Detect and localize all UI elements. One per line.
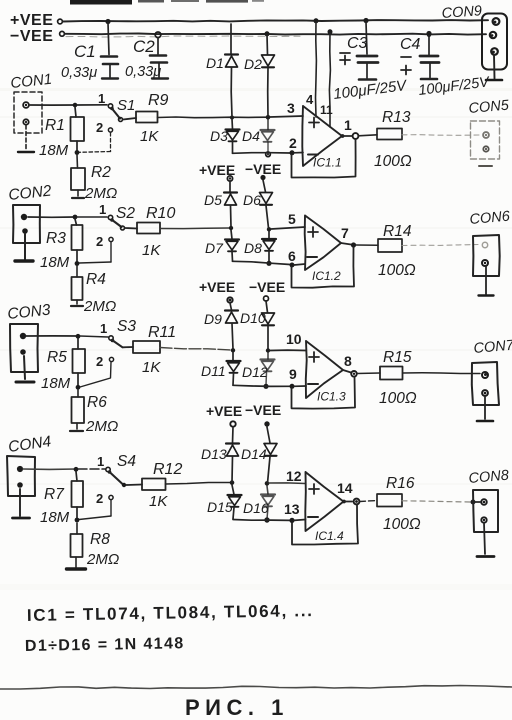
svg-text:2MΩ: 2MΩ	[83, 298, 116, 315]
svg-text:R12: R12	[153, 461, 182, 478]
node R7 top junction	[74, 467, 79, 472]
connector CON8	[473, 490, 498, 532]
svg-text:РИС. 1: РИС. 1	[185, 695, 289, 720]
svg-text:100Ω: 100Ω	[383, 516, 421, 533]
connector CON3	[10, 324, 38, 372]
wire junction to pin 6	[294, 264, 305, 265]
svg-text:D10: D10	[240, 310, 266, 326]
wire R12 to op-amp input	[166, 483, 231, 485]
svg-text:−VEE: −VEE	[245, 161, 281, 177]
wire output pin 1	[341, 133, 359, 139]
svg-text:1K: 1K	[142, 242, 161, 259]
C4 polarity mark	[401, 57, 411, 75]
svg-text:1K: 1K	[149, 493, 168, 510]
resistor R12	[142, 479, 166, 491]
IC1.3 plus input mark	[309, 352, 319, 362]
svg-text:18M: 18M	[40, 254, 70, 271]
-VEE rail	[60, 31, 486, 37]
svg-text:R4: R4	[86, 271, 106, 288]
wire S4 to R12	[126, 484, 142, 487]
svg-text:D7: D7	[205, 240, 224, 256]
svg-text:1: 1	[100, 321, 107, 336]
resistor R9	[136, 112, 158, 123]
feedback wire IC1.3	[292, 377, 356, 409]
op-amp IC1.3	[306, 341, 343, 398]
svg-text:C1: C1	[74, 42, 96, 61]
wire node to pin 12	[269, 482, 306, 485]
svg-text:R13: R13	[382, 109, 411, 126]
wire output pin 14	[342, 499, 359, 505]
diode D9	[225, 303, 238, 349]
CON2 ground	[15, 234, 33, 261]
op-amp IC1.1	[302, 106, 342, 166]
wire CON4 to node	[23, 468, 76, 470]
wire S2 to R10	[125, 227, 137, 230]
node R5 top junction	[76, 334, 81, 339]
diode D8	[262, 231, 276, 266]
capacitor C1	[101, 19, 118, 79]
diode D12	[261, 352, 275, 389]
svg-text:D9: D9	[204, 311, 222, 327]
wire clamp line to pin 2	[233, 152, 291, 155]
feedback wire IC1.1	[292, 139, 356, 178]
svg-text:R7: R7	[44, 486, 65, 503]
node R3-R4 junction	[75, 261, 80, 266]
svg-text:14: 14	[337, 480, 353, 496]
wire S2 pos2 to R4 node	[79, 242, 111, 263]
svg-text:S3: S3	[117, 318, 136, 335]
wire S1 pos2 to R2 node	[79, 133, 111, 153]
svg-text:D3: D3	[210, 128, 228, 144]
diode D1	[225, 24, 238, 117]
wire CON2 to node	[28, 216, 75, 218]
CON6 ground	[479, 266, 494, 296]
node D6 column junction	[267, 227, 271, 231]
diode D3	[226, 119, 240, 153]
svg-text:D16: D16	[243, 500, 269, 516]
node D13 column junction	[230, 480, 235, 485]
node pin6 junction	[290, 263, 295, 268]
svg-text:IC1.4: IC1.4	[315, 529, 344, 543]
diode D2	[262, 31, 275, 116]
svg-text:5: 5	[288, 211, 296, 227]
svg-text:1: 1	[98, 91, 105, 106]
wire node to S3	[80, 336, 108, 337]
svg-text:D12: D12	[242, 364, 268, 380]
resistor R1	[71, 107, 85, 151]
node R3 top junction	[73, 215, 78, 220]
resistor R14	[378, 239, 402, 252]
IC1.1 pin 4 power	[306, 18, 319, 117]
wire output pin 7	[341, 242, 356, 247]
wire R13 to CON5	[402, 134, 479, 137]
svg-text:S4: S4	[117, 453, 136, 470]
wire output to R15	[357, 372, 380, 375]
scan artifact top edge	[70, 0, 264, 5]
resistor R15	[380, 367, 403, 380]
connector CON2	[13, 205, 40, 243]
S3 position 2 terminal	[96, 354, 114, 369]
+VEE terminal ch3	[199, 279, 235, 303]
svg-text:D15: D15	[207, 499, 233, 515]
svg-text:S1: S1	[117, 97, 135, 114]
feedback wire IC1.2	[292, 247, 355, 288]
CON7 ground	[477, 396, 493, 421]
resistor R6	[70, 390, 84, 431]
CON8 ground	[477, 523, 494, 557]
IC1.1 pin 11 power	[320, 29, 333, 127]
switch S2 arm	[110, 218, 124, 230]
svg-text:+VEE: +VEE	[206, 403, 242, 419]
wire clamp line to pin 6	[233, 261, 291, 264]
-VEE terminal ch2	[245, 161, 281, 180]
wire S4 pos2 to R8 node	[79, 500, 111, 520]
CON4 ground	[13, 489, 30, 518]
node pin2 junction	[290, 150, 295, 155]
capacitor C4	[420, 31, 439, 79]
S2 position 1 terminal	[99, 202, 113, 220]
node D9 column junction	[231, 348, 235, 352]
svg-text:12: 12	[286, 468, 302, 484]
svg-text:+VEE: +VEE	[199, 279, 235, 295]
wire clamp line to pin 9	[233, 385, 290, 386]
connector CON6	[473, 235, 500, 276]
svg-text:2: 2	[96, 354, 103, 369]
svg-text:IC1.3: IC1.3	[317, 390, 346, 404]
diode D4	[261, 119, 275, 157]
node R1-R2 junction	[75, 150, 80, 155]
connector CON5	[471, 121, 500, 159]
svg-text:C4: C4	[400, 36, 421, 53]
node R7-R8 junction	[75, 518, 80, 523]
svg-text:R8: R8	[90, 531, 110, 548]
diode D16	[261, 486, 275, 523]
resistor R7	[72, 472, 84, 520]
svg-text:IC1.2: IC1.2	[312, 269, 341, 283]
+VEE terminal ch2	[199, 162, 235, 181]
svg-text:−VEE: −VEE	[10, 28, 53, 45]
CON5 ground mark	[479, 165, 492, 167]
svg-text:18M: 18M	[40, 509, 70, 526]
S2 position 2 terminal	[96, 234, 113, 249]
svg-text:4: 4	[306, 92, 314, 107]
op-amp IC1.2	[305, 216, 341, 271]
svg-text:D5: D5	[204, 192, 222, 208]
svg-text:D1÷D16 = 1N 4148: D1÷D16 = 1N 4148	[25, 635, 185, 655]
node D10 column junction	[266, 348, 270, 352]
svg-text:D1: D1	[206, 55, 224, 71]
svg-text:100Ω: 100Ω	[378, 262, 416, 279]
node R5-R6 junction	[76, 385, 81, 390]
wire CON1 to node	[29, 104, 75, 106]
resistor R2	[71, 155, 85, 198]
R8 ground	[67, 567, 86, 570]
resistor R13	[377, 129, 402, 140]
svg-text:CON7: CON7	[473, 337, 512, 357]
resistor R5	[73, 339, 86, 387]
connector CON7	[472, 362, 499, 405]
-VEE terminal ch3	[249, 279, 285, 301]
node D5 column junction	[229, 226, 233, 230]
connector CON4	[7, 456, 35, 496]
svg-text:+VEE: +VEE	[10, 12, 53, 29]
node pin13 junction	[289, 518, 294, 523]
capacitor C3	[357, 18, 378, 80]
wire output to R13	[359, 135, 378, 136]
op-amp IC1.4	[305, 472, 343, 531]
IC1.2 minus input mark	[307, 256, 317, 258]
node D1 column signal junction	[230, 116, 234, 120]
IC1.3 minus input mark	[308, 383, 318, 385]
S4 position 2 terminal	[96, 491, 113, 506]
wire node to pin 10	[270, 349, 306, 351]
wire S1 to R9	[123, 118, 136, 120]
svg-text:D6: D6	[243, 192, 261, 208]
wire R9 to op-amp input	[158, 116, 268, 119]
diode D6	[260, 180, 273, 228]
svg-text:18M: 18M	[39, 142, 69, 159]
svg-text:100Ω: 100Ω	[379, 390, 417, 407]
IC1.1 plus input mark	[309, 118, 319, 128]
svg-text:11: 11	[320, 103, 333, 117]
svg-text:1: 1	[99, 202, 106, 217]
+VEE terminal ch4	[206, 403, 242, 427]
wire R15 to CON7	[403, 372, 481, 375]
capacitor C2	[150, 32, 168, 79]
svg-text:18M: 18M	[41, 375, 71, 392]
S3 position 1 terminal	[100, 321, 113, 340]
CON3 ground	[16, 356, 34, 382]
IC1.4 plus input mark	[309, 484, 319, 494]
resistor R8	[71, 523, 83, 567]
wire R16 to CON8	[402, 500, 480, 505]
svg-text:C3: C3	[347, 35, 368, 52]
svg-text:R9: R9	[148, 92, 169, 109]
CON9 ground	[486, 55, 502, 80]
wire junction to pin 9	[294, 385, 306, 387]
wire node to S1	[77, 104, 107, 106]
wire clamp line to pin 13	[233, 519, 290, 522]
diode D11	[227, 352, 241, 385]
IC1.4 minus input mark	[308, 516, 318, 518]
diode D10	[262, 301, 275, 350]
svg-text:2MΩ: 2MΩ	[85, 418, 118, 435]
svg-text:R15: R15	[383, 349, 412, 366]
diode D5	[224, 181, 237, 227]
svg-text:R10: R10	[146, 205, 175, 222]
wire R10 to op-amp input	[160, 227, 229, 230]
svg-text:8: 8	[344, 353, 352, 369]
svg-text:7: 7	[341, 225, 349, 241]
svg-text:IC1.1: IC1.1	[313, 156, 342, 170]
node pin9 junction	[290, 384, 295, 389]
wire output to R16	[360, 501, 378, 502]
S1 position 2 terminal	[96, 120, 113, 135]
wire output pin 8	[343, 370, 357, 377]
S1 position 1 terminal	[98, 91, 113, 108]
+VEE rail	[58, 19, 488, 24]
CON1 ground	[18, 125, 34, 152]
svg-text:6: 6	[288, 248, 296, 264]
svg-text:0,33μ: 0,33μ	[61, 65, 97, 81]
svg-text:1: 1	[344, 117, 352, 133]
svg-text:R5: R5	[47, 349, 67, 366]
resistor R16	[377, 494, 402, 507]
diode D15	[228, 485, 242, 519]
wire node to pin 5	[271, 227, 305, 229]
diode D14	[264, 427, 277, 483]
S4 position 1 terminal	[97, 454, 110, 472]
wire node to pin 3	[270, 116, 303, 117]
svg-text:R3: R3	[46, 230, 66, 247]
wire node to S4	[78, 468, 105, 470]
switch S4 arm	[108, 470, 127, 487]
svg-text:2: 2	[96, 234, 103, 249]
svg-text:3: 3	[287, 100, 295, 116]
svg-text:S2: S2	[116, 205, 135, 222]
connector CON1	[14, 92, 42, 133]
svg-text:2: 2	[289, 135, 297, 151]
node pin3 junction	[266, 115, 271, 120]
svg-text:D11: D11	[201, 363, 226, 379]
svg-text:D4: D4	[242, 128, 260, 144]
wire R14 to CON6	[402, 245, 478, 246]
resistor R3	[72, 219, 83, 262]
wire node to S2	[77, 216, 107, 218]
wire junction to pin 13	[294, 519, 306, 522]
svg-text:1: 1	[97, 454, 104, 469]
resistor R10	[137, 223, 160, 234]
svg-text:R2: R2	[91, 164, 111, 181]
resistor R11	[133, 341, 160, 353]
svg-text:−VEE: −VEE	[249, 279, 285, 295]
svg-text:C2: C2	[133, 37, 155, 56]
svg-text:100Ω: 100Ω	[374, 153, 412, 170]
connector CON9	[482, 14, 507, 70]
IC1.1 minus input mark	[308, 154, 318, 156]
svg-text:2: 2	[96, 120, 103, 135]
diode D7	[225, 230, 239, 261]
switch S1 arm	[110, 107, 122, 122]
svg-text:D8: D8	[244, 240, 262, 256]
wire R11 to op-amp input	[160, 348, 231, 351]
diode D13	[226, 427, 239, 482]
svg-text:D2: D2	[244, 56, 262, 72]
IC1.2 plus input mark	[308, 227, 318, 237]
wire S3 to R11	[123, 346, 133, 348]
wire S3 pos2 to R6 node	[80, 362, 111, 387]
svg-text:−VEE: −VEE	[245, 402, 281, 418]
svg-text:9: 9	[289, 366, 297, 382]
svg-text:1K: 1K	[140, 128, 159, 145]
svg-text:10: 10	[286, 331, 302, 347]
svg-text:CON9: CON9	[441, 3, 482, 22]
svg-text:R11: R11	[148, 324, 176, 341]
C3 polarity mark	[340, 53, 350, 65]
svg-text:13: 13	[284, 501, 300, 517]
svg-text:R14: R14	[383, 223, 412, 240]
scan artifact bottom line	[0, 686, 512, 690]
svg-text:D14: D14	[241, 446, 267, 462]
wire output to R14	[356, 244, 378, 246]
svg-text:0,33μ: 0,33μ	[125, 64, 161, 80]
-VEE terminal ch4	[245, 402, 281, 427]
wire junction to pin 2	[294, 152, 303, 154]
switch S3 arm	[111, 339, 123, 348]
svg-text:D13: D13	[201, 446, 227, 462]
svg-text:R16: R16	[386, 475, 415, 492]
wire CON3 to node	[26, 335, 78, 337]
feedback wire IC1.4	[292, 505, 358, 545]
svg-text:2MΩ: 2MΩ	[86, 551, 119, 568]
node D14 column junction	[265, 481, 270, 486]
svg-text:2: 2	[96, 491, 103, 506]
svg-text:2MΩ: 2MΩ	[84, 185, 117, 202]
svg-text:R1: R1	[45, 117, 65, 134]
resistor R4	[71, 266, 83, 306]
svg-text:R6: R6	[87, 394, 107, 411]
svg-text:1K: 1K	[142, 359, 161, 376]
node R1 top junction	[73, 103, 78, 108]
